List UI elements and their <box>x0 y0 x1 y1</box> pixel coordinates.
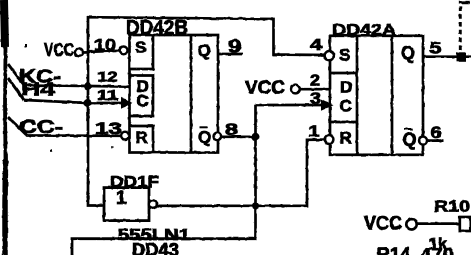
svg-text:1: 1 <box>309 124 320 141</box>
svg-text:C: C <box>137 92 149 111</box>
junction at DD1F output crossing <box>252 202 259 209</box>
junction pin8 node <box>252 133 260 141</box>
junction on KC- wire <box>84 82 92 90</box>
VCC terminal (DD42B S input) <box>44 40 120 60</box>
DD42A Q-bar label <box>403 129 417 150</box>
clock arrowhead C input <box>121 97 133 108</box>
inverter DD1F <box>104 188 157 221</box>
svg-text:10: 10 <box>94 36 116 55</box>
wire Q-bar pin8 to DD42A C and DD43 <box>221 105 322 238</box>
junction square pin 5 <box>457 52 467 62</box>
speck <box>50 150 52 152</box>
wire Q output pin 5 <box>423 55 471 58</box>
svg-text:13: 13 <box>95 119 122 138</box>
svg-text:1: 1 <box>116 188 127 209</box>
svg-text:R14: R14 <box>377 245 411 255</box>
svg-text:R: R <box>340 129 352 148</box>
dashed stub from pin5 node <box>460 1 469 51</box>
svg-text:Q: Q <box>401 43 415 63</box>
R input bubble (pin 1) <box>325 135 334 144</box>
speck <box>25 44 28 47</box>
svg-text:H4: H4 <box>21 80 55 100</box>
svg-text:3: 3 <box>310 91 321 108</box>
wire DD1F output to DD42A R (pin 1) <box>157 140 325 206</box>
svg-text:6: 6 <box>431 123 442 142</box>
page edge line <box>4 0 6 255</box>
svg-text:Q: Q <box>198 41 211 60</box>
VCC terminal (DD42A D input) <box>245 78 330 98</box>
svg-text:R10: R10 <box>434 199 470 216</box>
R input bubble (pin 13) <box>121 132 129 140</box>
net CC- <box>8 117 121 137</box>
svg-text:S: S <box>135 38 146 57</box>
svg-text:470: 470 <box>420 245 454 255</box>
svg-text:4: 4 <box>310 37 322 54</box>
IC DD43 box <box>72 239 257 255</box>
svg-text:DD43: DD43 <box>132 240 179 255</box>
svg-text:VCC: VCC <box>44 40 74 60</box>
flip-flop DD42A <box>330 36 423 155</box>
svg-text:Q: Q <box>198 128 211 147</box>
clock arrowhead DD42A C input (pin 3) <box>321 100 334 111</box>
svg-text:R: R <box>136 128 148 147</box>
svg-text:VCC: VCC <box>364 214 402 235</box>
svg-text:S: S <box>339 46 350 65</box>
VCC terminal (R10) <box>364 214 460 235</box>
flip-flop DD42B <box>130 35 219 153</box>
net KC- <box>8 64 130 87</box>
DD42B Q-bar label <box>198 127 211 146</box>
Q-bar output bubble (pin 8) <box>214 133 222 141</box>
junction on H4 wire <box>84 99 92 107</box>
feedback rail wire <box>88 17 325 205</box>
svg-text:Q: Q <box>403 130 417 150</box>
wire pin 9 stub <box>218 53 243 56</box>
resistor R10 body <box>460 217 471 231</box>
speck <box>111 146 114 148</box>
svg-text:VCC: VCC <box>245 78 285 98</box>
net H4 <box>8 78 121 103</box>
svg-text:5: 5 <box>430 39 442 58</box>
svg-text:11: 11 <box>97 88 118 104</box>
S input bubble (pin 10) <box>120 47 128 55</box>
S input bubble (pin 4) <box>325 51 334 60</box>
svg-text:C: C <box>340 97 352 116</box>
svg-text:12: 12 <box>98 70 118 86</box>
svg-text:D: D <box>340 78 352 97</box>
Q-bar output bubble (pin 6) <box>419 137 427 145</box>
svg-text:2: 2 <box>310 73 320 90</box>
wire pin 6 stub <box>427 139 443 142</box>
